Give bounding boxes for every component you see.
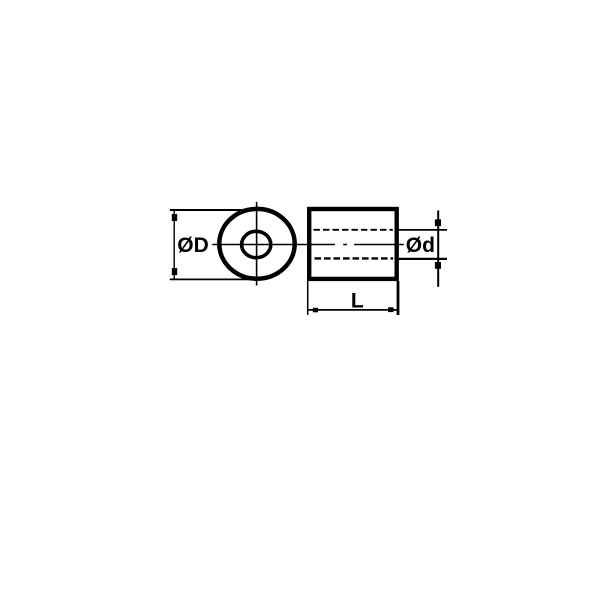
svg-text:L: L xyxy=(351,289,364,312)
svg-text:Ød: Ød xyxy=(406,234,435,257)
svg-text:ØD: ØD xyxy=(177,234,209,257)
